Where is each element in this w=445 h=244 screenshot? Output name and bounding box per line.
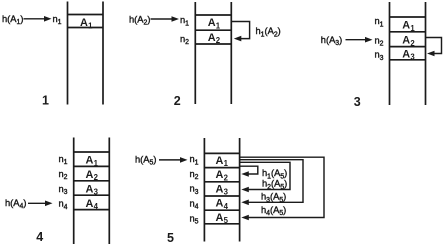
svg-text:3: 3 (354, 95, 361, 109)
cell A1 top rung (204, 152, 239, 154)
cell A2/A3 rung (74, 180, 110, 182)
rehash wire h2(A5) (240, 162, 290, 189)
cell A1 top rung (390, 16, 426, 18)
rehash arrowhead into n2 (234, 36, 242, 42)
column 5 left rail (203, 138, 205, 242)
cell A2/A3 rung (390, 46, 426, 48)
arrow h(A2) to n1 (151, 16, 180, 22)
cell A5 bottom rung (204, 223, 239, 225)
rehash arrowhead into n3 (427, 51, 435, 57)
rehash wire h1(A5) (240, 166, 258, 174)
cell A1 bottom rung (68, 27, 104, 29)
rehash arrowhead h3 into n4 (241, 200, 249, 206)
cell A1/A2 rung (204, 167, 239, 169)
column 2 left rail (194, 2, 196, 104)
rehash arrowhead h4 into n5 (241, 215, 249, 221)
rehash wire h1(A2) (231, 22, 249, 39)
column 3 left rail (389, 2, 391, 105)
rehash arrowhead h1 into n2 (241, 171, 249, 177)
column 2 right rail (230, 2, 232, 104)
rehash wire h3(A5) (240, 160, 303, 203)
cell A1 top rung (74, 151, 110, 153)
cell A2/A3 rung (204, 181, 239, 183)
cell A3/A4 rung (204, 195, 239, 197)
cell A1/A2 rung (195, 29, 231, 31)
cell A4 bottom rung (74, 209, 110, 211)
rehash wire h1(A3) (426, 38, 442, 54)
column 4 right rail (108, 138, 110, 244)
svg-text:1: 1 (42, 93, 49, 107)
svg-text:4: 4 (36, 230, 43, 244)
cell A1 top rung (68, 14, 104, 16)
cell A3/A4 rung (74, 194, 110, 196)
svg-text:2: 2 (174, 94, 181, 108)
cell A1 top rung (195, 14, 231, 16)
column 1 right rail (102, 2, 104, 105)
cell A1/A2 rung (390, 31, 426, 33)
svg-text:5: 5 (167, 231, 174, 244)
rehash wire h4(A5) (240, 157, 324, 217)
cell A1/A2 rung (74, 165, 110, 167)
rehash arrowhead h2 into n3 (241, 187, 249, 193)
cell A2 bottom rung (195, 43, 231, 45)
arrow h(A5) to n1 (159, 157, 188, 163)
cell A4/A5 rung (204, 209, 239, 211)
column 5 right rail (239, 138, 241, 242)
column 3 right rail (425, 2, 427, 105)
column 4 left rail (73, 138, 75, 244)
arrow h(A3) to n2 (346, 37, 373, 43)
cell A3 bottom rung (390, 59, 426, 61)
column 1 left rail (67, 2, 69, 105)
arrow h(A4) to n4 (28, 201, 53, 207)
arrow h(A1) to n1 (24, 16, 52, 22)
